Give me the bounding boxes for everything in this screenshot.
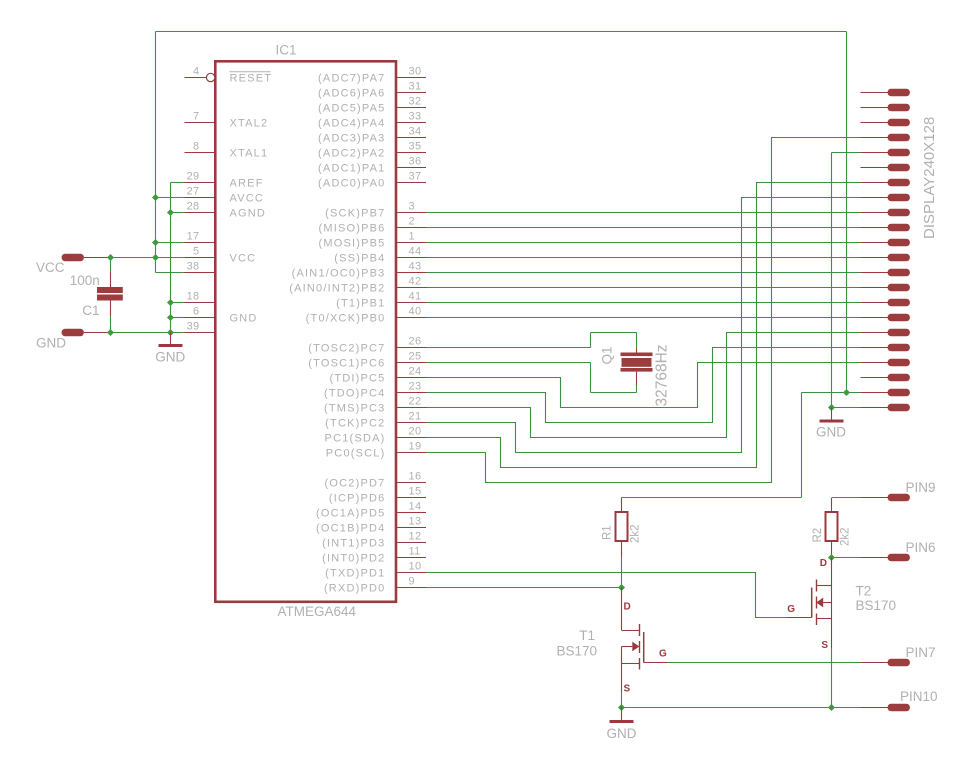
svg-text:C1: C1 xyxy=(82,303,99,318)
svg-text:2k2: 2k2 xyxy=(840,527,852,546)
svg-text:12: 12 xyxy=(409,531,422,543)
svg-text:GND: GND xyxy=(36,336,66,351)
svg-text:(ADC4)PA4: (ADC4)PA4 xyxy=(318,118,385,130)
svg-text:24: 24 xyxy=(409,366,422,378)
svg-text:44: 44 xyxy=(409,246,422,258)
svg-text:31: 31 xyxy=(409,81,422,93)
svg-text:(AIN1/OC0)PB3: (AIN1/OC0)PB3 xyxy=(292,268,386,280)
node T2 drain junction xyxy=(828,554,835,561)
svg-text:36: 36 xyxy=(409,156,422,168)
node GND junctions left xyxy=(107,209,174,336)
svg-text:43: 43 xyxy=(409,261,422,273)
svg-text:VCC: VCC xyxy=(36,260,65,275)
svg-text:100n: 100n xyxy=(70,273,100,288)
svg-text:(INT0)PD2: (INT0)PD2 xyxy=(322,553,385,565)
svg-text:34: 34 xyxy=(409,126,422,138)
capacitor C1 100n xyxy=(70,272,123,319)
svg-text:D: D xyxy=(624,602,631,613)
svg-text:(TDI)PC5: (TDI)PC5 xyxy=(329,373,385,385)
svg-text:3: 3 xyxy=(409,201,415,213)
svg-text:(TDO)PC4: (TDO)PC4 xyxy=(324,388,386,400)
svg-text:(ADC2)PA2: (ADC2)PA2 xyxy=(318,148,385,160)
svg-text:2k2: 2k2 xyxy=(630,524,642,543)
svg-text:26: 26 xyxy=(409,336,422,348)
op IC1 ATMEGA644 body xyxy=(215,43,396,620)
wire PB7..PB0 to display pads 9-16 xyxy=(426,213,861,318)
wire VCC net (right, to display pad21 and R1) xyxy=(622,32,861,498)
svg-text:(T0/XCK)PB0: (T0/XCK)PB0 xyxy=(306,313,386,325)
svg-text:11: 11 xyxy=(409,546,421,558)
wire PC1 to display pad7 xyxy=(426,183,861,468)
transistor T1 BS170 xyxy=(556,588,667,708)
svg-text:25: 25 xyxy=(409,351,422,363)
svg-text:29: 29 xyxy=(187,171,200,183)
svg-text:AGND: AGND xyxy=(230,208,267,220)
svg-text:8: 8 xyxy=(193,141,199,153)
svg-text:32: 32 xyxy=(409,96,422,108)
svg-text:1: 1 xyxy=(409,231,415,243)
node T1 drain junction xyxy=(618,584,625,591)
svg-text:T1: T1 xyxy=(579,628,595,643)
svg-text:GND: GND xyxy=(230,313,258,325)
ground symbol below IC xyxy=(155,333,185,365)
svg-text:(ICP)PD6: (ICP)PD6 xyxy=(329,493,386,505)
svg-text:(TCK)PC2: (TCK)PC2 xyxy=(325,418,385,430)
svg-text:(RXD)PD0: (RXD)PD0 xyxy=(324,583,386,595)
svg-text:AREF: AREF xyxy=(230,178,264,190)
svg-text:33: 33 xyxy=(409,111,422,123)
svg-text:(T1)PB1: (T1)PB1 xyxy=(336,298,385,310)
svg-text:(AIN0/INT2)PB2: (AIN0/INT2)PB2 xyxy=(289,283,385,295)
svg-text:S: S xyxy=(821,640,828,651)
svg-text:15: 15 xyxy=(409,486,422,498)
svg-text:19: 19 xyxy=(409,441,422,453)
IC1 right pins with numbers xyxy=(396,66,426,588)
svg-text:28: 28 xyxy=(187,201,200,213)
svg-text:XTAL1: XTAL1 xyxy=(230,148,269,160)
svg-text:BS170: BS170 xyxy=(856,598,897,613)
svg-text:PIN10: PIN10 xyxy=(900,689,938,704)
wire PC2 to display pad8 xyxy=(426,198,861,453)
svg-text:AVCC: AVCC xyxy=(230,193,265,205)
svg-text:VCC: VCC xyxy=(230,253,257,265)
wire PC0 to display pad4 xyxy=(426,138,861,483)
svg-text:20: 20 xyxy=(409,426,422,438)
svg-text:(OC2)PD7: (OC2)PD7 xyxy=(325,478,386,490)
wire GND net (left) xyxy=(111,183,185,333)
svg-text:G: G xyxy=(659,649,667,660)
svg-text:5: 5 xyxy=(193,246,199,258)
ground symbol right of display xyxy=(816,408,846,440)
crystal Q1 32768Hz xyxy=(426,333,671,407)
ground symbol at T1 source xyxy=(607,708,637,742)
resistor R1 2k2 xyxy=(602,498,642,557)
svg-text:Q1: Q1 xyxy=(600,346,615,364)
svg-text:(TXD)PD1: (TXD)PD1 xyxy=(325,568,385,580)
pad PIN9 xyxy=(832,480,936,501)
node PIN10 junctions xyxy=(618,704,835,711)
connector DISPLAY240X128 pads xyxy=(861,89,939,411)
wire GND net (right, display pads 5 and 22) xyxy=(832,153,861,408)
svg-text:G: G xyxy=(787,604,795,615)
svg-text:(MOSI)PB5: (MOSI)PB5 xyxy=(318,238,385,250)
svg-text:14: 14 xyxy=(409,501,422,513)
svg-text:(OC1B)PD4: (OC1B)PD4 xyxy=(316,523,385,535)
svg-text:IC1: IC1 xyxy=(276,43,297,58)
svg-text:42: 42 xyxy=(409,276,422,288)
svg-text:9: 9 xyxy=(409,576,415,588)
svg-text:(TOSC2)PC7: (TOSC2)PC7 xyxy=(308,343,385,355)
svg-text:(SCK)PB7: (SCK)PB7 xyxy=(325,208,385,220)
svg-text:17: 17 xyxy=(187,231,200,243)
pad PIN10 xyxy=(622,689,938,711)
svg-text:30: 30 xyxy=(409,66,422,78)
svg-text:18: 18 xyxy=(187,291,200,303)
wire PC3 to display pad17 xyxy=(426,333,861,438)
svg-text:37: 37 xyxy=(409,171,422,183)
svg-text:R1: R1 xyxy=(602,525,614,540)
svg-text:S: S xyxy=(624,684,631,695)
pad PIN7 xyxy=(668,645,936,666)
svg-text:32768Hz: 32768Hz xyxy=(654,344,671,406)
svg-text:RESET: RESET xyxy=(230,73,273,85)
svg-text:16: 16 xyxy=(409,471,422,483)
svg-text:13: 13 xyxy=(409,516,422,528)
svg-text:PC1(SDA): PC1(SDA) xyxy=(325,433,386,445)
svg-text:6: 6 xyxy=(193,306,199,318)
svg-text:(ADC6)PA6: (ADC6)PA6 xyxy=(318,88,385,100)
svg-text:41: 41 xyxy=(409,291,422,303)
svg-text:GND: GND xyxy=(607,726,637,741)
pad GND (supply) xyxy=(36,329,110,350)
svg-text:21: 21 xyxy=(409,411,422,423)
wire R1 bottom to T1 drain / PD0 xyxy=(426,557,622,588)
svg-text:D: D xyxy=(820,558,827,569)
svg-text:(ADC3)PA3: (ADC3)PA3 xyxy=(318,133,385,145)
pad PIN6 xyxy=(832,540,936,561)
svg-text:R2: R2 xyxy=(812,528,824,543)
wire VCC net (left) xyxy=(111,32,847,273)
svg-text:2: 2 xyxy=(409,216,415,228)
svg-text:27: 27 xyxy=(187,186,200,198)
pad VCC (supply) xyxy=(36,254,110,275)
svg-text:(ADC1)PA1: (ADC1)PA1 xyxy=(318,163,385,175)
svg-text:(OC1A)PD5: (OC1A)PD5 xyxy=(316,508,385,520)
svg-text:PIN7: PIN7 xyxy=(906,645,936,660)
svg-text:35: 35 xyxy=(409,141,422,153)
svg-text:7: 7 xyxy=(193,111,199,123)
svg-text:22: 22 xyxy=(409,396,422,408)
svg-text:(SS)PB4: (SS)PB4 xyxy=(334,253,385,265)
svg-text:PIN9: PIN9 xyxy=(906,480,936,495)
svg-text:ATMEGA644: ATMEGA644 xyxy=(278,604,357,619)
transistor T2 BS170 xyxy=(787,558,896,708)
svg-text:XTAL2: XTAL2 xyxy=(230,118,269,130)
svg-text:(MISO)PB6: (MISO)PB6 xyxy=(318,223,385,235)
svg-text:40: 40 xyxy=(409,306,422,318)
wire PC5 to display pad19 xyxy=(426,363,861,408)
node VCC junction right xyxy=(843,389,850,396)
node GND junction right xyxy=(828,404,835,411)
svg-text:10: 10 xyxy=(409,561,422,573)
svg-text:(INT1)PD3: (INT1)PD3 xyxy=(322,538,385,550)
resistor R2 2k2 xyxy=(812,498,852,556)
svg-text:GND: GND xyxy=(816,424,846,439)
svg-text:GND: GND xyxy=(155,350,185,365)
svg-text:4: 4 xyxy=(193,66,199,78)
node VCC junctions left xyxy=(107,194,159,261)
svg-text:BS170: BS170 xyxy=(556,644,597,659)
svg-text:23: 23 xyxy=(409,381,422,393)
svg-text:T2: T2 xyxy=(856,584,872,599)
svg-text:(ADC5)PA5: (ADC5)PA5 xyxy=(318,103,385,115)
svg-text:(ADC7)PA7: (ADC7)PA7 xyxy=(318,73,385,85)
svg-text:DISPLAY240X128: DISPLAY240X128 xyxy=(921,117,938,239)
wire PD1 to T2 gate xyxy=(426,573,788,618)
svg-text:(TMS)PC3: (TMS)PC3 xyxy=(324,403,386,415)
svg-text:PC0(SCL): PC0(SCL) xyxy=(326,448,386,460)
IC1 pin name labels xyxy=(229,72,385,595)
svg-text:39: 39 xyxy=(187,321,200,333)
svg-text:(ADC0)PA0: (ADC0)PA0 xyxy=(318,178,385,190)
wire PC4 to display pad18 xyxy=(426,348,861,423)
svg-text:38: 38 xyxy=(187,261,200,273)
svg-text:(TOSC1)PC6: (TOSC1)PC6 xyxy=(308,358,385,370)
IC1 left pins with numbers xyxy=(185,66,216,333)
svg-text:PIN6: PIN6 xyxy=(906,540,936,555)
